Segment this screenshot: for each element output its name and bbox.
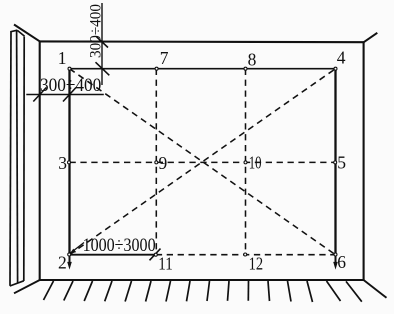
floor line — [39, 279, 364, 281]
board top side cap — [17, 30, 24, 36]
leaning board middle line — [17, 31, 18, 283]
horizontal dimension line 300÷400 (left) — [26, 94, 104, 96]
point 6 — [334, 253, 337, 256]
point 7 — [155, 67, 158, 70]
point 4 — [334, 67, 337, 70]
svg-text:1000÷3000: 1000÷3000 — [83, 235, 156, 256]
down arrow at point 2 — [67, 255, 72, 270]
point 8 — [244, 67, 247, 70]
point 9 — [155, 161, 158, 164]
vertical dimension line 300÷400 (top) — [101, 3, 103, 85]
svg-text:8: 8 — [248, 50, 257, 70]
point 12 — [244, 253, 247, 256]
ceiling line — [40, 40, 364, 43]
svg-text:4: 4 — [337, 48, 346, 68]
vertical dashed line through 7-9-11 — [155, 69, 157, 255]
svg-text:2: 2 — [58, 253, 67, 273]
point 5 — [334, 161, 337, 164]
bottom dimension 1000÷3000: leader arrow at point 2 — [70, 243, 84, 254]
leaning board right line — [23, 37, 25, 281]
grid rectangle: right edge (4-6) — [334, 69, 336, 255]
bottom edge dashed segment 11-6 — [156, 254, 336, 256]
svg-text:7: 7 — [160, 48, 169, 68]
floor hatching — [44, 281, 362, 302]
down arrow at point 6 — [333, 255, 338, 270]
point 1 — [68, 67, 71, 70]
top-left perspective edge — [14, 25, 40, 42]
dashed diagonal 2-4 — [70, 69, 336, 255]
point 3 — [68, 161, 71, 164]
svg-text:300÷400: 300÷400 — [40, 75, 101, 96]
point 11 — [154, 253, 157, 256]
tick at point 11 — [150, 249, 161, 261]
floor edge bottom-right — [364, 280, 387, 298]
grid rectangle: top edge (1-4) — [70, 68, 336, 70]
svg-text:3: 3 — [58, 153, 67, 173]
tick at wall line crossing — [33, 88, 46, 102]
leaning board left line — [10, 32, 11, 286]
svg-text:6: 6 — [337, 252, 346, 272]
bottom edge solid segment 2-11 (dimension line) — [70, 254, 156, 256]
tick at grid top edge crossing — [96, 62, 110, 75]
board bottom cap — [10, 281, 24, 286]
top-right corner stub — [363, 33, 377, 43]
horizontal dashed middle line 3-9-10-5 — [70, 161, 336, 163]
wall right corner line — [363, 42, 365, 281]
tick at grid left edge crossing — [63, 88, 76, 102]
dashed diagonal 1-6 — [70, 69, 336, 255]
point 10 — [244, 161, 247, 164]
vertical dashed line through 8-10-12 — [245, 69, 247, 255]
svg-text:11: 11 — [158, 254, 173, 274]
grid rectangle: left edge (1-2) — [68, 69, 70, 255]
svg-text:1: 1 — [58, 48, 67, 68]
board top cap — [10, 30, 17, 32]
point 2 — [68, 253, 71, 256]
svg-text:10: 10 — [249, 152, 262, 172]
svg-text:300÷400: 300÷400 — [88, 4, 105, 58]
svg-text:5: 5 — [337, 153, 346, 173]
floor edge bottom-left — [14, 280, 40, 293]
wall left corner line — [39, 41, 41, 281]
svg-text:9: 9 — [159, 153, 168, 173]
svg-text:12: 12 — [249, 254, 264, 274]
tick at ceiling crossing — [97, 37, 109, 48]
